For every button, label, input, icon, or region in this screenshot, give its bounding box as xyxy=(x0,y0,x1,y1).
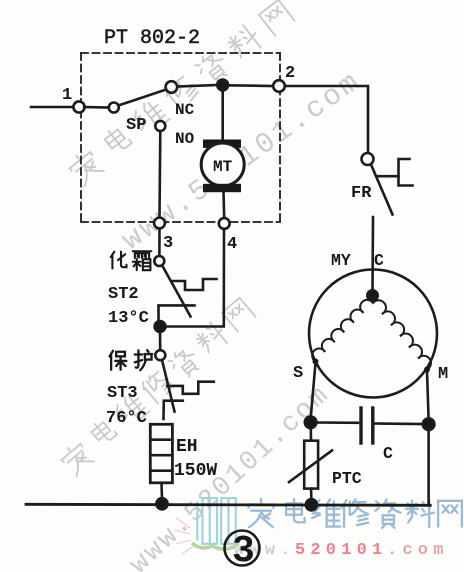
wire: M down xyxy=(427,372,429,420)
svg-text:13°C: 13°C xyxy=(108,309,149,328)
node C xyxy=(367,290,377,300)
motor MT top bar xyxy=(203,140,241,148)
wire: left feed to terminal 1 xyxy=(31,106,74,109)
junction EH-rail xyxy=(156,498,167,509)
svg-text:520101: 520101 xyxy=(295,541,387,560)
svg-text:4: 4 xyxy=(227,235,237,254)
label huashuang (defrost) xyxy=(111,251,152,270)
node M xyxy=(424,367,430,373)
thermal cutout FR pivot xyxy=(362,153,374,165)
terminal 1 xyxy=(73,101,84,112)
watermark logo rays xyxy=(174,518,194,554)
svg-text:3: 3 xyxy=(163,234,173,253)
watermark url pink row xyxy=(234,541,449,560)
bottom rail wire xyxy=(26,504,430,505)
wire: terminal 1 to SP pivot xyxy=(84,106,108,109)
svg-text:FR: FR xyxy=(351,184,372,203)
motor MY winding xyxy=(312,300,431,370)
circuit ink xyxy=(26,53,437,566)
wire: junction down to PTC xyxy=(309,428,312,440)
svg-text:.com: .com xyxy=(387,541,449,560)
svg-text:C: C xyxy=(383,444,393,463)
wire: NC to node xyxy=(177,85,217,87)
wire: NO down to terminal 3 xyxy=(158,131,161,218)
ST2 bimetal step xyxy=(173,279,217,290)
svg-text:76°C: 76°C xyxy=(106,409,147,428)
svg-text:SP: SP xyxy=(126,116,146,135)
heater EH segment lines xyxy=(150,438,172,441)
defrost thermostat ST2 wire from terminal 3 xyxy=(158,229,161,257)
wire: PTC down to bottom rail xyxy=(310,489,313,500)
wire: capacitor right to junction M xyxy=(375,422,423,425)
watermark logo swoosh xyxy=(192,543,239,549)
motor MT body xyxy=(201,143,244,186)
junction M-cap xyxy=(423,418,435,430)
svg-text:NO: NO xyxy=(175,130,195,148)
terminal 2 xyxy=(273,80,285,92)
svg-text:MY: MY xyxy=(331,251,351,270)
wire: junction down to ST3 xyxy=(159,332,162,350)
wire: M branch down to rail corner xyxy=(429,430,431,505)
FR actuator link xyxy=(378,175,399,178)
ST3 output link xyxy=(164,401,183,419)
svg-text:2: 2 xyxy=(285,64,295,83)
ST2 output link xyxy=(159,305,195,321)
svg-text:PT 802-2: PT 802-2 xyxy=(104,27,200,50)
wire: MT to terminal 4 xyxy=(222,192,225,218)
label baohu (protect) xyxy=(110,350,153,370)
ST2 pivot xyxy=(154,256,164,266)
svg-text:ST2: ST2 xyxy=(108,285,139,304)
PT 802-2 dashed enclosure xyxy=(81,53,280,222)
PTC resistor body xyxy=(304,441,318,489)
svg-text:1: 1 xyxy=(62,86,72,105)
capacitor C left plate xyxy=(359,408,362,443)
motor MT bottom bar xyxy=(203,184,241,192)
motor MY body xyxy=(309,270,437,398)
watermark gray diagonal phrase bottom-left xyxy=(58,298,256,477)
FR blade xyxy=(371,165,393,215)
ST2 blade xyxy=(162,266,190,317)
svg-text:EH: EH xyxy=(176,437,198,457)
svg-text:3: 3 xyxy=(232,530,255,572)
watermark blue phrase bottom row xyxy=(248,499,462,528)
svg-text:M: M xyxy=(438,365,448,384)
watermark logo book xyxy=(197,498,235,544)
switch SP blade to NC xyxy=(118,90,166,106)
svg-text:PTC: PTC xyxy=(332,469,362,488)
svg-text:NC: NC xyxy=(175,101,195,119)
wire: EH to rail xyxy=(160,483,163,499)
FR heater bracket xyxy=(399,159,413,186)
wire: junction to capacitor left xyxy=(316,421,358,424)
junction S-PTC-cap xyxy=(305,417,317,429)
svg-text:C: C xyxy=(374,251,384,270)
terminal 4 xyxy=(219,218,230,229)
PTC diagonal xyxy=(289,451,332,483)
protector ST3 pivot xyxy=(155,350,165,360)
wire: FR to motor MY terminal C xyxy=(371,217,374,292)
wire: node to terminal 2 xyxy=(228,84,273,87)
wire: terminal 4 down xyxy=(165,229,224,327)
terminal 3 xyxy=(154,218,165,229)
wire: terminal 2 to FR xyxy=(285,86,368,153)
ST3 blade xyxy=(162,360,175,412)
wire: node down to motor MT xyxy=(221,90,224,141)
ST3 bimetal step xyxy=(167,382,214,394)
wire: S down xyxy=(311,363,316,417)
junction PTC-rail xyxy=(306,499,317,510)
svg-text:MT: MT xyxy=(213,158,233,176)
heater EH body xyxy=(150,424,172,483)
switch SP pivot xyxy=(109,103,119,113)
node S xyxy=(313,359,319,365)
svg-text:150W: 150W xyxy=(174,461,217,481)
contact NC xyxy=(166,81,178,93)
svg-text:ST3: ST3 xyxy=(107,384,138,403)
capacitor C right plate xyxy=(371,408,374,443)
figure number circle xyxy=(225,531,260,566)
watermark gray diagonal phrase top-left xyxy=(66,0,295,187)
junction ST2/T4 xyxy=(155,321,166,332)
node junction xyxy=(217,80,228,91)
contact NO xyxy=(155,121,165,131)
svg-text:S: S xyxy=(293,364,303,383)
